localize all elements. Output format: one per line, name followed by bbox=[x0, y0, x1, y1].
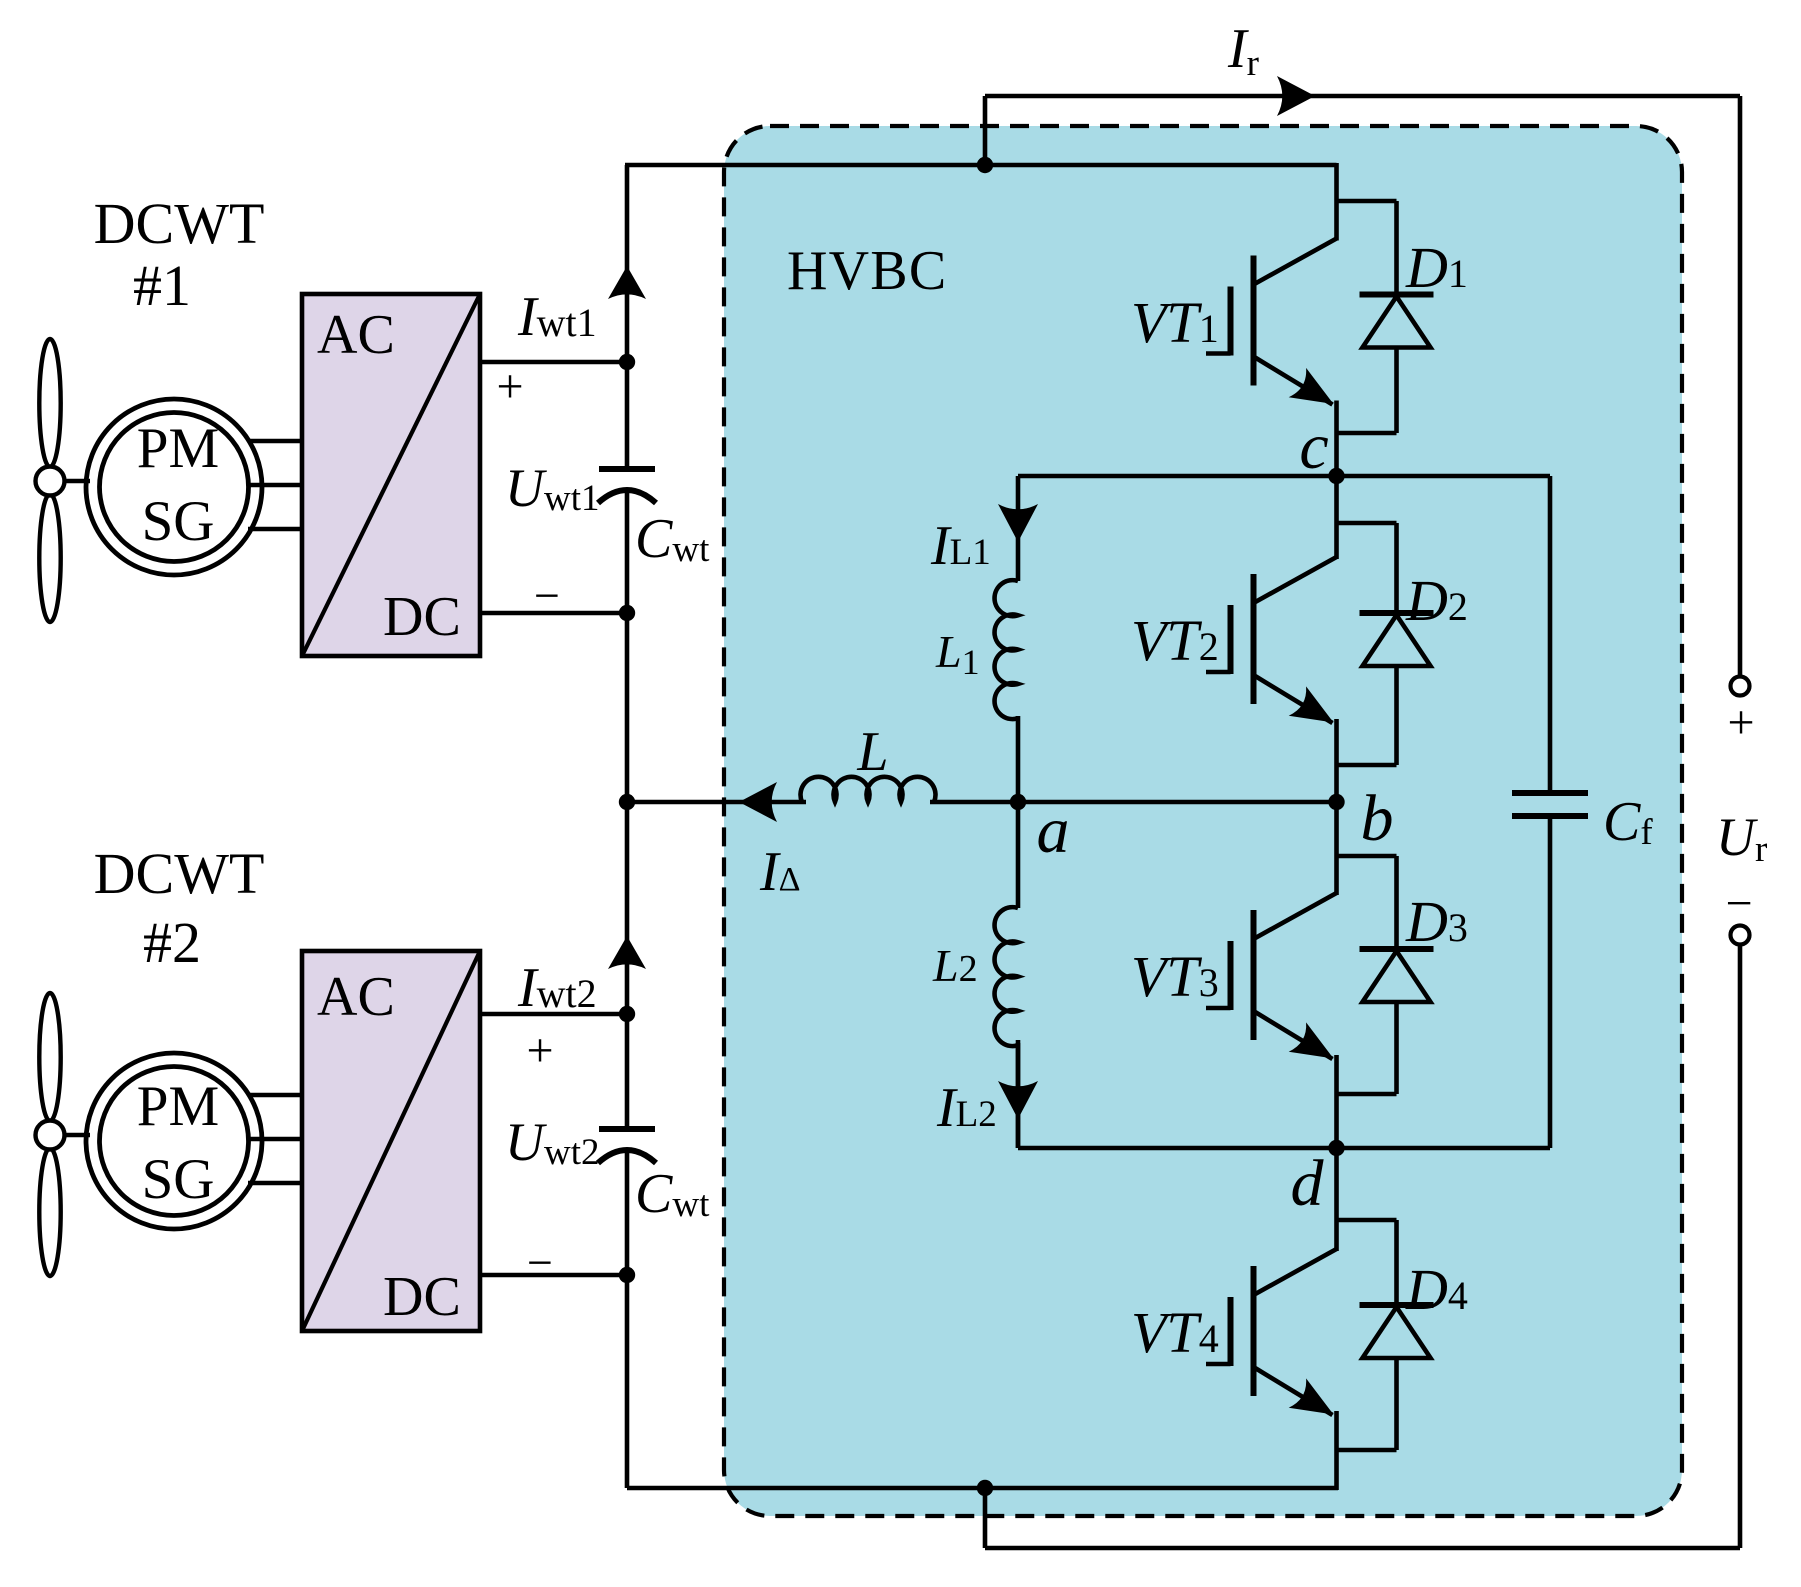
svg-text:−: − bbox=[527, 1237, 553, 1288]
svg-text:d: d bbox=[1291, 1147, 1325, 1220]
svg-text:PM: PM bbox=[137, 417, 219, 480]
svg-text:b: b bbox=[1361, 782, 1394, 855]
svg-text:AC: AC bbox=[317, 304, 395, 366]
svg-text:SG: SG bbox=[142, 1148, 215, 1211]
svg-text:DC: DC bbox=[383, 586, 461, 648]
svg-text:−: − bbox=[1725, 877, 1752, 930]
svg-text:DC: DC bbox=[383, 1266, 461, 1328]
svg-text:#1: #1 bbox=[133, 253, 191, 318]
svg-text:+: + bbox=[496, 360, 523, 413]
svg-text:+: + bbox=[1727, 696, 1754, 749]
svg-text:+: + bbox=[526, 1024, 553, 1077]
svg-text:−: − bbox=[534, 570, 560, 621]
svg-text:L: L bbox=[856, 721, 888, 783]
svg-text:HVBC: HVBC bbox=[787, 240, 947, 302]
svg-text:#2: #2 bbox=[143, 910, 201, 975]
svg-text:DCWT: DCWT bbox=[94, 191, 265, 256]
svg-text:PM: PM bbox=[137, 1075, 219, 1138]
svg-text:SG: SG bbox=[142, 490, 215, 553]
svg-text:a: a bbox=[1037, 794, 1070, 867]
svg-text:c: c bbox=[1299, 410, 1328, 483]
svg-text:DCWT: DCWT bbox=[94, 841, 265, 906]
svg-text:L2: L2 bbox=[932, 940, 978, 991]
svg-text:AC: AC bbox=[317, 966, 395, 1028]
